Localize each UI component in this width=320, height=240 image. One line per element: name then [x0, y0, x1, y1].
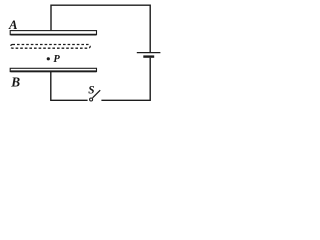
svg-text:B: B	[10, 74, 20, 89]
svg-text:A: A	[8, 18, 18, 32]
svg-text:S: S	[88, 85, 94, 97]
svg-text:P: P	[53, 54, 60, 65]
